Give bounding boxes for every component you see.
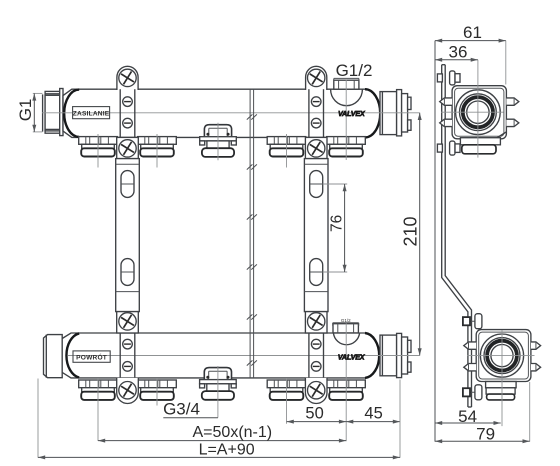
dimension G1 <box>16 93 42 131</box>
return manifold right end cap <box>402 337 411 374</box>
ZASILANIE label <box>73 107 110 119</box>
dimension 54 <box>435 407 501 426</box>
POWROT label <box>73 351 110 362</box>
side view supply wall bolts <box>437 71 460 85</box>
dimension 50 / 45 <box>287 405 400 424</box>
supply manifold right ring <box>397 90 402 136</box>
return manifold G1/2 boss <box>333 323 359 333</box>
bracket B1 plate below supply manifold <box>117 137 139 158</box>
dimension A=50x(n-1) <box>98 424 346 442</box>
svg-text:L=A+90: L=A+90 <box>199 442 255 459</box>
fitting return U2 flange <box>200 380 237 388</box>
supply manifold G1/2 vent boss <box>334 78 359 89</box>
svg-text:VALVEX: VALVEX <box>338 109 366 118</box>
supply manifold G1 threaded end <box>43 91 60 133</box>
side view return side bolts <box>464 342 541 371</box>
dimension 76 <box>323 184 348 272</box>
outlet connection return O3 <box>267 380 306 400</box>
return manifold body <box>62 333 379 378</box>
svg-text:G1/2: G1/2 <box>341 318 351 323</box>
bracket B1 upper slot <box>121 171 134 198</box>
dimension G3/4 leader <box>163 400 218 419</box>
fitting return U2 bottom cap <box>202 391 234 400</box>
bracket B1 clamp over return manifold <box>120 333 135 378</box>
side view supply centerlines <box>441 60 504 158</box>
svg-text:POWRÓT: POWRÓT <box>76 352 107 361</box>
side view return centerlines <box>468 330 535 426</box>
svg-text:54: 54 <box>458 407 477 426</box>
outlet connection supply O2 <box>138 137 177 157</box>
side view return outlet stack <box>486 382 516 400</box>
fitting return U2 nut <box>207 384 229 392</box>
svg-text:210: 210 <box>401 216 421 246</box>
bracket B2 clamp screws (supply) <box>311 97 321 107</box>
bracket B2 bottom rounded plate <box>305 378 327 404</box>
flowmeter/valve fitting supply U1 shoulders <box>204 125 231 137</box>
mounting bracket side profile (Z-bend plate) <box>442 65 472 407</box>
side view supply bore circles <box>456 90 501 135</box>
bracket B1 vertical strip <box>116 159 140 312</box>
dimension 61 <box>435 23 506 84</box>
outlet connection supply O3 <box>267 137 306 157</box>
svg-text:36: 36 <box>449 42 468 61</box>
svg-text:ZASILANIE: ZASILANIE <box>73 110 110 117</box>
return manifold end arc right <box>365 333 379 378</box>
svg-text:45: 45 <box>364 405 382 423</box>
outlet connection return O4 <box>327 380 366 400</box>
bracket B1 clamp screws (supply) <box>123 97 133 107</box>
side view supply outlet stack <box>460 138 500 154</box>
return manifold centerline <box>68 355 420 357</box>
side view return bore circles <box>480 334 523 377</box>
outlet connection supply O1 <box>79 137 118 157</box>
svg-text:VALVEX: VALVEX <box>338 353 366 362</box>
section break lines <box>247 89 257 378</box>
bracket B2 clamp over return manifold <box>309 333 324 378</box>
fitting U2 axis <box>217 366 219 418</box>
side view supply side bolts <box>440 98 519 127</box>
bracket B2 plate below supply manifold <box>305 137 327 158</box>
fitting supply U1 bottom cap <box>202 148 234 157</box>
supply manifold centerline <box>42 112 420 114</box>
return manifold right cap 1 <box>380 335 397 376</box>
svg-text:61: 61 <box>463 23 482 42</box>
supply manifold right cap 1 <box>380 92 397 135</box>
bracket B1 bottom rounded plate <box>117 378 139 404</box>
bracket B1 lower slot <box>121 259 134 286</box>
svg-text:76: 76 <box>329 215 346 232</box>
svg-text:50: 50 <box>305 405 323 423</box>
dimension L=A+90 <box>38 379 400 460</box>
wall extension line <box>434 41 436 442</box>
bracket B2 clamp over supply manifold <box>309 89 324 137</box>
supply manifold vent dome <box>331 89 363 105</box>
return manifold vent dome <box>333 333 359 345</box>
outlet axes supply <box>98 134 287 168</box>
bracket B1 clamp screws (return) <box>123 339 133 349</box>
bracket B1 top screw <box>117 67 138 88</box>
bracket B2 top screw <box>306 67 327 88</box>
outlet connection return O1 <box>79 380 118 400</box>
fitting supply U1 nut <box>207 141 229 149</box>
svg-text:G1/2: G1/2 <box>336 61 373 80</box>
supply manifold end arc right <box>365 89 380 137</box>
side view return valve body <box>476 330 531 382</box>
outlet connection return O2 <box>138 380 177 400</box>
side view supply valve body <box>452 86 506 139</box>
bracket B1 plate above return manifold <box>117 311 139 333</box>
supply manifold dome end arc <box>64 90 79 137</box>
dimension 36 <box>435 42 478 61</box>
side view return wall bolts <box>463 314 482 329</box>
flowmeter/valve fitting return U2 shoulders <box>204 368 231 380</box>
dimension 79 <box>435 382 530 444</box>
svg-text:G1: G1 <box>16 99 35 122</box>
bracket B1 clamp over supply manifold <box>120 89 135 137</box>
return manifold dome end arc <box>66 333 79 377</box>
outlet connection supply O4 <box>327 137 366 157</box>
return manifold left cap <box>44 335 63 378</box>
bracket B2 clamp screws (return) <box>311 339 321 349</box>
svg-text:A=50x(n-1): A=50x(n-1) <box>193 424 273 441</box>
fitting supply U1 flange <box>200 137 237 145</box>
vent axis supply <box>345 80 347 160</box>
bracket B2 lower slot <box>310 259 323 286</box>
vent axis return / 50-45 extension <box>345 323 347 441</box>
svg-text:G3/4: G3/4 <box>163 400 200 419</box>
fitting U1 axis <box>217 123 219 161</box>
bracket B2 upper slot <box>310 171 323 198</box>
bracket B2 plate above return manifold <box>305 311 327 333</box>
return manifold right ring <box>397 333 402 377</box>
dimension 210 <box>401 113 422 356</box>
supply manifold body <box>63 89 380 137</box>
mounting bracket B1 top rounded plate <box>117 66 138 90</box>
supply manifold union nut <box>60 89 63 136</box>
mounting bracket B2 top rounded plate <box>306 66 327 90</box>
bracket B2 vertical strip <box>304 159 328 312</box>
supply manifold right end cap <box>402 94 411 132</box>
svg-text:79: 79 <box>476 425 495 444</box>
outlet axes return <box>98 378 287 441</box>
